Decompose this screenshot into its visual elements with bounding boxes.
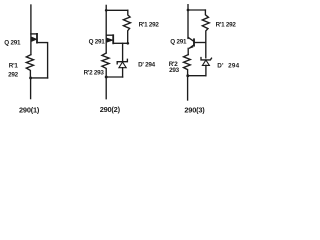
transistor Q3 collector diagonal bbox=[188, 37, 194, 41]
wire: circuit 1 source to right loop bbox=[37, 43, 48, 78]
junction dot circuit 1 bottom bbox=[29, 76, 32, 79]
diode D' 294 (circuit 3) zener cathode bar bbox=[201, 58, 212, 60]
junction dot circuit 3 bottom bbox=[186, 74, 189, 77]
svg-text:D' 294: D' 294 bbox=[138, 62, 156, 69]
wire: circuit 3 emitter down to resistor bbox=[187, 48, 189, 54]
wire: circuit 3 bottom lead bbox=[187, 76, 189, 100]
transistor Q2 gate arrow bbox=[107, 38, 113, 42]
svg-text:Q 291: Q 291 bbox=[89, 38, 106, 45]
svg-text:292: 292 bbox=[8, 71, 19, 78]
junction dot circuit 3 top bbox=[187, 9, 190, 12]
wire: circuit 2 top horizontal bbox=[106, 9, 128, 11]
transistor Q3 base bar bbox=[193, 39, 195, 45]
wire: circuit 3 diode anode lead bbox=[205, 65, 207, 75]
resistor R'2 293 (circuit 2) zigzag bbox=[102, 53, 109, 77]
svg-text:R'1: R'1 bbox=[9, 63, 19, 70]
wire: circuit 2 drop to diode bbox=[122, 43, 124, 61]
svg-text:Q 291: Q 291 bbox=[170, 38, 187, 45]
svg-text:290(3): 290(3) bbox=[184, 105, 205, 114]
svg-text:Q 291: Q 291 bbox=[4, 39, 21, 46]
svg-text:R'1 292: R'1 292 bbox=[139, 22, 160, 29]
junction dot circuit 2 top bbox=[105, 9, 108, 12]
wire: circuit 2 bottom lead bbox=[105, 77, 107, 99]
transistor Q1 channel bar bbox=[36, 34, 38, 43]
resistor R'2 293 (circuit 3) zigzag bbox=[184, 55, 191, 76]
svg-text:D' 294: D' 294 bbox=[217, 62, 239, 69]
wire: circuit 3 top horizontal bbox=[188, 9, 205, 11]
junction dot circuit 2 node B bbox=[126, 42, 129, 45]
transistor Q2 drain bend bbox=[106, 34, 113, 36]
svg-text:R'1 292: R'1 292 bbox=[216, 22, 237, 29]
wire: circuit 2 source horizontal to node B bbox=[113, 42, 128, 44]
wire: circuit 1 bottom lead bbox=[30, 78, 32, 99]
diode D' 294 (circuit 2) zener cathode bar bbox=[117, 59, 127, 64]
wire: circuit 3 bottom joining wire bbox=[188, 75, 206, 77]
diode D' 294 (circuit 3) triangle bbox=[202, 60, 209, 65]
resistor R'1 (circuit 1) zigzag bbox=[26, 55, 33, 78]
wire: circuit 1 left vertical (top lead down through gate to resistor) bbox=[30, 5, 32, 55]
transistor Q3 emitter diagonal with arrow bbox=[190, 45, 194, 48]
wire: circuit 1 bottom joining wire bbox=[30, 77, 47, 79]
diode D' 294 (circuit 2) triangle bbox=[119, 62, 126, 68]
transistor Q3 base lead to right branch bbox=[194, 42, 206, 44]
wire: circuit 3 top lead bbox=[187, 5, 189, 39]
wire: circuit 2 top lead and left vertical bbox=[105, 5, 107, 53]
resistor R'1 292 (circuit 2) zigzag on right branch bbox=[123, 10, 130, 43]
wire: circuit 2 bottom joining wire bbox=[106, 76, 122, 78]
svg-text:R'2 293: R'2 293 bbox=[84, 70, 105, 77]
transistor Q1 drain bend bbox=[31, 33, 37, 35]
wire: circuit 2 diode anode lead bbox=[122, 68, 124, 77]
transistor Q1 gate arrow bbox=[32, 37, 37, 41]
svg-text:293: 293 bbox=[169, 67, 180, 74]
svg-text:290(2): 290(2) bbox=[100, 105, 121, 114]
resistor R'1 292 (circuit 3) zigzag on right branch bbox=[202, 10, 209, 58]
svg-text:290(1): 290(1) bbox=[19, 105, 40, 114]
junction dot circuit 2 bottom bbox=[105, 76, 108, 79]
transistor Q2 channel bar bbox=[112, 35, 114, 43]
